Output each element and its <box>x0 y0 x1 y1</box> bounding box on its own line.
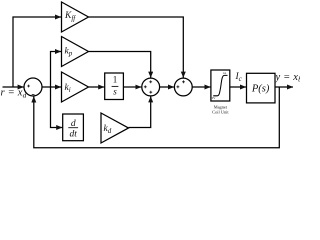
svg-text:s: s <box>113 87 117 97</box>
svg-text:Ic: Ic <box>235 72 243 83</box>
svg-text:r = xd: r = xd <box>1 88 27 100</box>
svg-text:Coil Unit: Coil Unit <box>212 109 229 114</box>
svg-text:dt: dt <box>70 130 78 140</box>
svg-text:1: 1 <box>113 74 118 84</box>
svg-text:y = xb: y = xb <box>275 72 301 84</box>
svg-text:P(s): P(s) <box>251 83 270 94</box>
